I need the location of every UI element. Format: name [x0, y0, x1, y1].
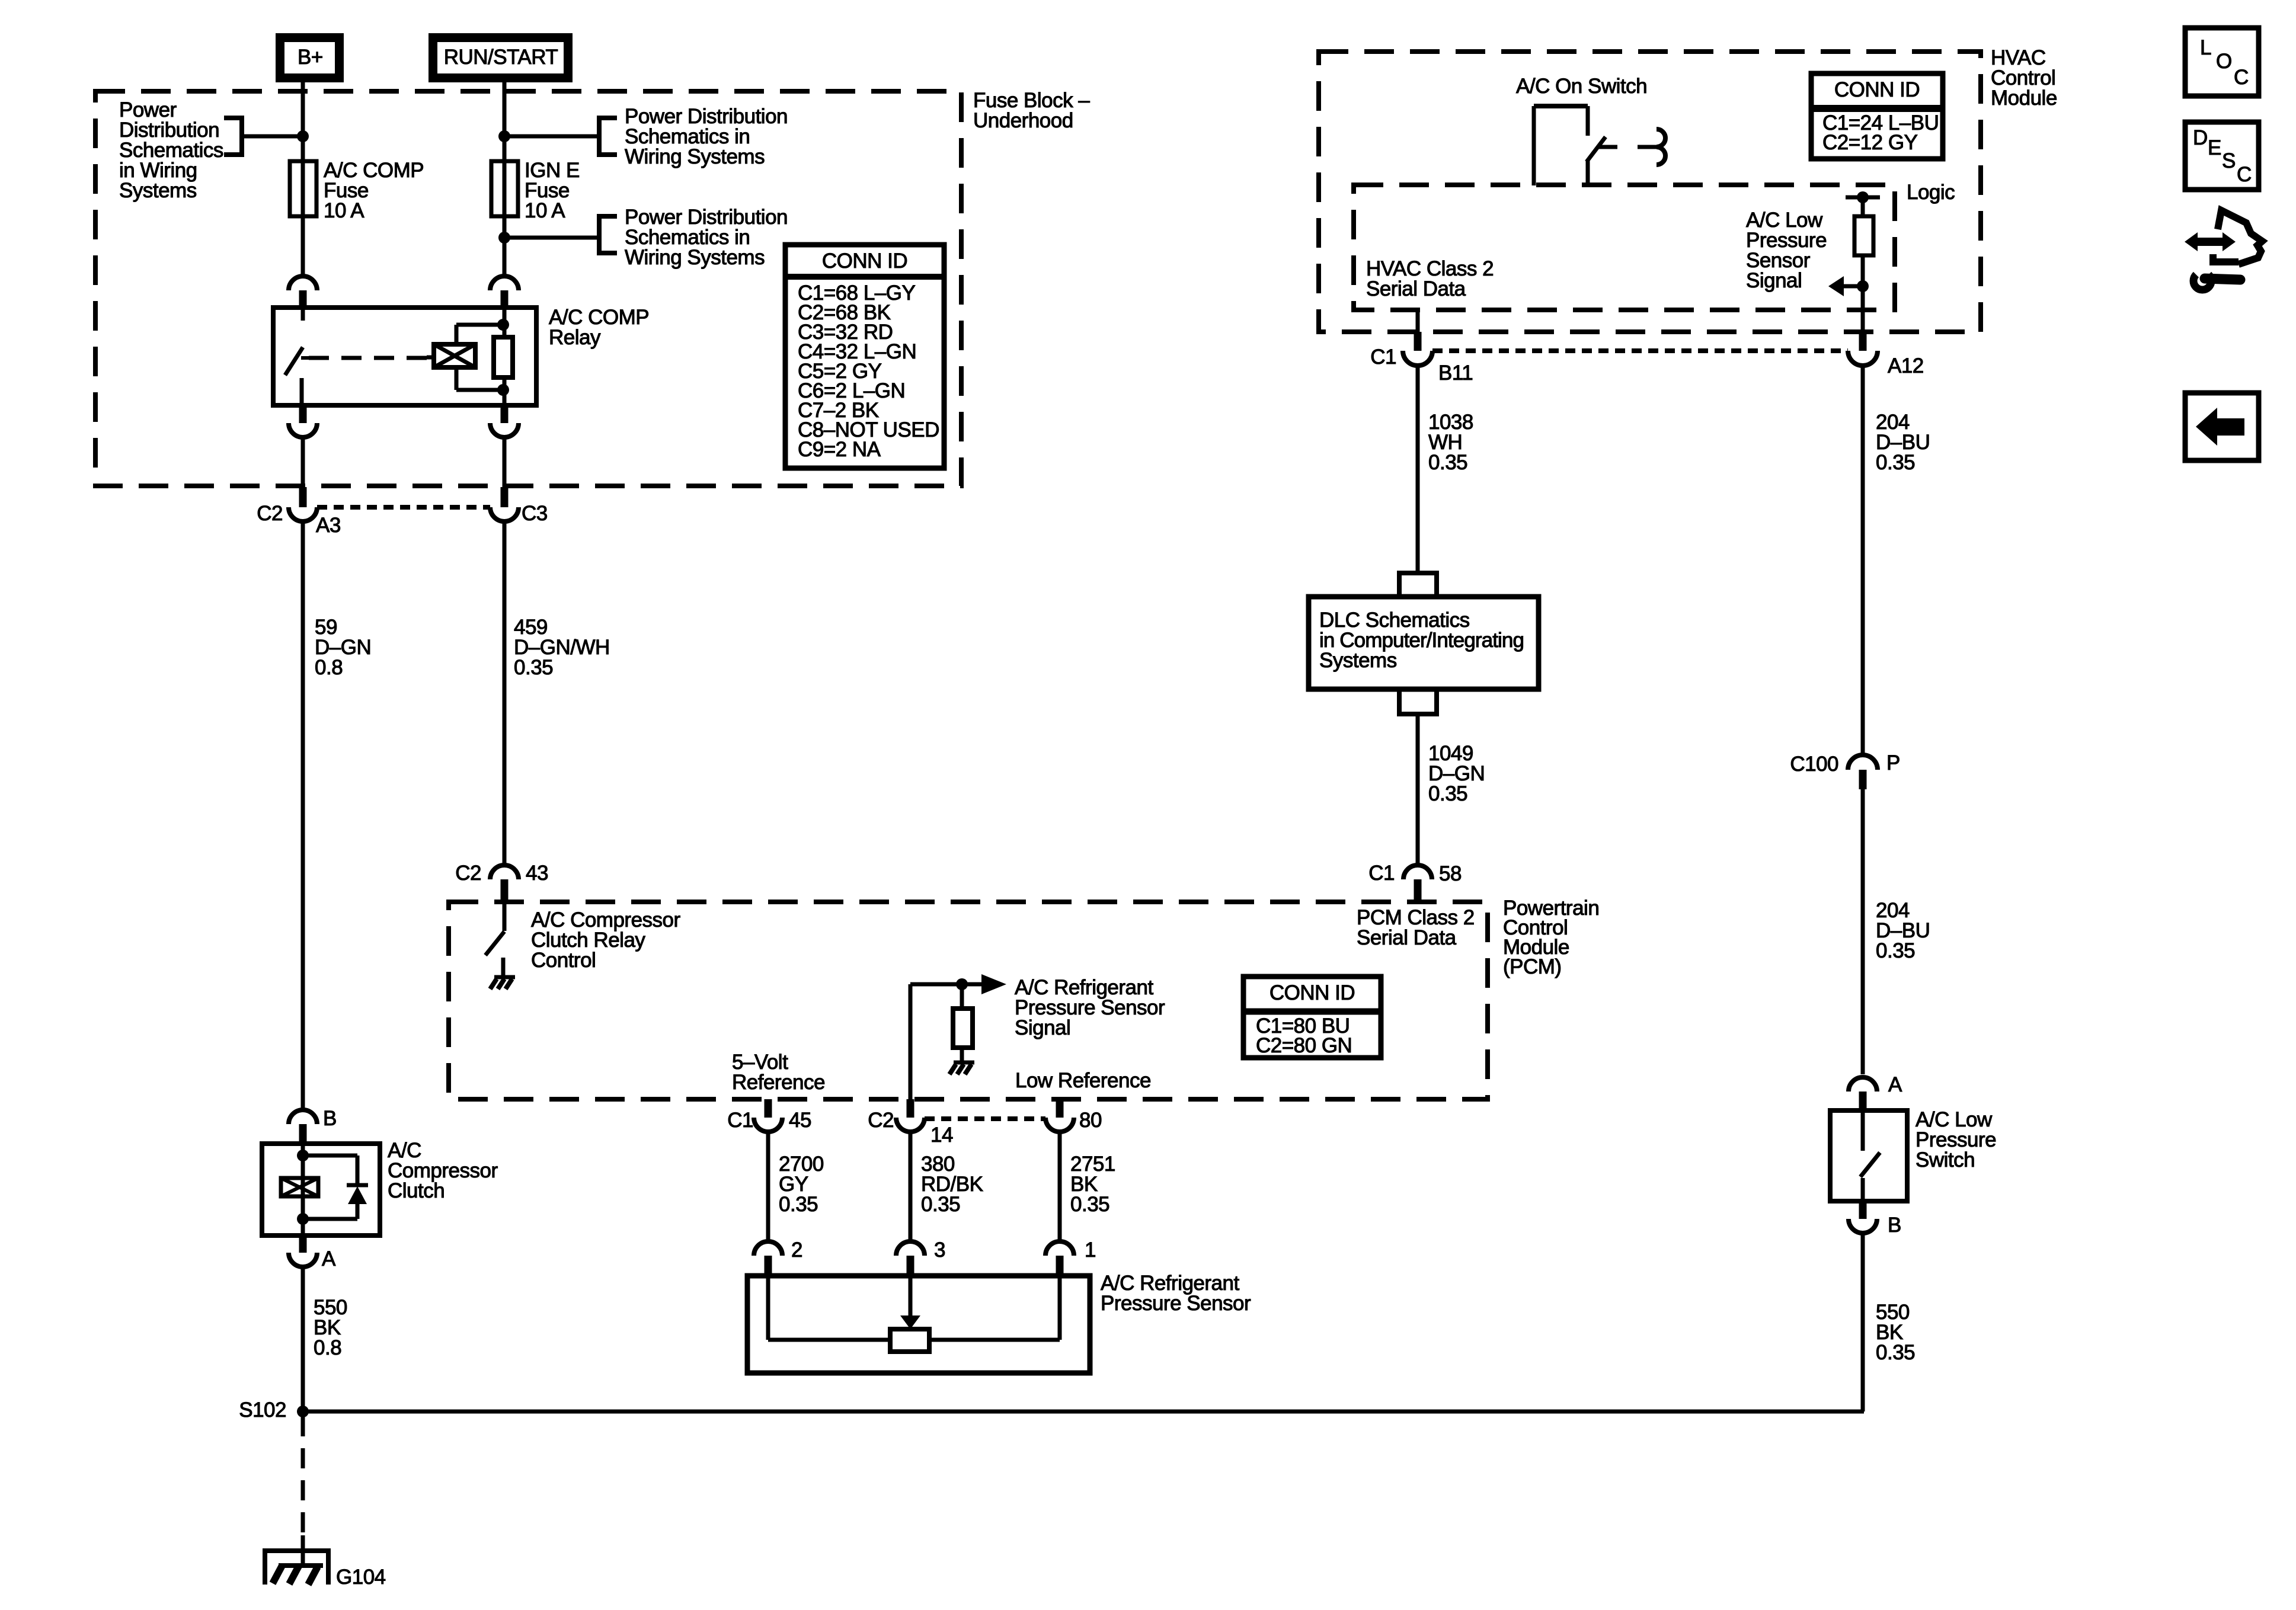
svg-text:Systems: Systems — [119, 179, 197, 202]
svg-text:45: 45 — [789, 1109, 811, 1132]
svg-text:A: A — [322, 1247, 336, 1270]
svg-text:0.35: 0.35 — [779, 1193, 818, 1216]
svg-text:E: E — [2208, 136, 2221, 159]
svg-text:A/C On Switch: A/C On Switch — [1516, 75, 1647, 98]
svg-text:Clutch: Clutch — [388, 1179, 445, 1202]
svg-text:Serial Data: Serial Data — [1357, 926, 1457, 949]
svg-text:CONN ID: CONN ID — [1834, 78, 1920, 101]
svg-text:0.35: 0.35 — [921, 1193, 960, 1216]
svg-text:C2: C2 — [868, 1109, 894, 1132]
svg-text:Switch: Switch — [1916, 1148, 1975, 1172]
svg-text:RUN/START: RUN/START — [444, 46, 558, 69]
svg-text:Logic: Logic — [1907, 181, 1955, 204]
svg-text:0.35: 0.35 — [1876, 451, 1915, 474]
svg-text:C3: C3 — [522, 502, 548, 525]
svg-text:O: O — [2216, 50, 2232, 73]
svg-text:Serial Data: Serial Data — [1366, 277, 1466, 300]
svg-text:0.8: 0.8 — [315, 656, 343, 679]
svg-text:0.35: 0.35 — [1876, 1341, 1915, 1364]
svg-text:14: 14 — [930, 1124, 953, 1147]
svg-text:B: B — [1888, 1214, 1901, 1237]
svg-text:Systems: Systems — [1319, 649, 1397, 672]
svg-text:CONN ID: CONN ID — [1269, 981, 1355, 1004]
svg-text:0.8: 0.8 — [314, 1336, 341, 1359]
svg-text:C2: C2 — [257, 502, 283, 525]
svg-text:B+: B+ — [298, 46, 323, 69]
svg-text:2: 2 — [791, 1238, 802, 1262]
svg-text:Signal: Signal — [1015, 1016, 1070, 1039]
svg-text:C9=2 NA: C9=2 NA — [798, 438, 881, 461]
svg-text:C2=80 GN: C2=80 GN — [1256, 1034, 1352, 1057]
svg-text:58: 58 — [1439, 862, 1462, 885]
svg-text:0.35: 0.35 — [1876, 939, 1915, 962]
svg-text:Low Reference: Low Reference — [1015, 1069, 1151, 1092]
svg-text:C1: C1 — [727, 1109, 753, 1132]
svg-text:C: C — [2237, 163, 2252, 186]
svg-text:Pressure Sensor: Pressure Sensor — [1101, 1292, 1251, 1315]
svg-text:P: P — [1886, 751, 1900, 774]
svg-text:Wiring Systems: Wiring Systems — [625, 246, 765, 269]
svg-text:G104: G104 — [336, 1566, 386, 1589]
svg-text:C2: C2 — [455, 862, 481, 885]
svg-text:0.35: 0.35 — [1428, 451, 1467, 474]
svg-text:C1: C1 — [1370, 345, 1396, 369]
svg-text:C1: C1 — [1368, 862, 1395, 885]
svg-text:Wiring Systems: Wiring Systems — [625, 145, 765, 168]
svg-text:D: D — [2193, 126, 2208, 149]
svg-text:B: B — [323, 1107, 337, 1130]
svg-text:Control: Control — [531, 949, 596, 972]
svg-text:S: S — [2222, 149, 2236, 172]
svg-text:1: 1 — [1085, 1238, 1096, 1262]
svg-text:CONN ID: CONN ID — [822, 249, 907, 273]
svg-text:Relay: Relay — [549, 326, 601, 349]
svg-text:C100: C100 — [1790, 753, 1838, 776]
svg-text:C2=12 GY: C2=12 GY — [1822, 131, 1918, 154]
svg-text:0.35: 0.35 — [514, 656, 553, 679]
svg-text:A: A — [1888, 1073, 1902, 1096]
svg-text:43: 43 — [526, 862, 548, 885]
svg-text:B11: B11 — [1438, 361, 1473, 385]
svg-text:10 A: 10 A — [525, 199, 565, 222]
svg-text:Reference: Reference — [732, 1071, 825, 1094]
svg-text:0.35: 0.35 — [1070, 1193, 1109, 1216]
svg-text:C: C — [2234, 66, 2249, 89]
svg-text:S102: S102 — [239, 1398, 286, 1422]
svg-text:0.35: 0.35 — [1428, 782, 1467, 805]
svg-text:80: 80 — [1079, 1109, 1102, 1132]
svg-text:(PCM): (PCM) — [1503, 955, 1562, 978]
svg-text:10 A: 10 A — [324, 199, 364, 222]
svg-text:3: 3 — [934, 1238, 945, 1262]
svg-text:Module: Module — [1991, 87, 2057, 110]
svg-text:Signal: Signal — [1746, 269, 1802, 292]
svg-text:A3: A3 — [316, 514, 341, 537]
svg-text:A12: A12 — [1888, 354, 1924, 377]
svg-text:Underhood: Underhood — [973, 109, 1073, 132]
svg-text:L: L — [2200, 36, 2211, 59]
